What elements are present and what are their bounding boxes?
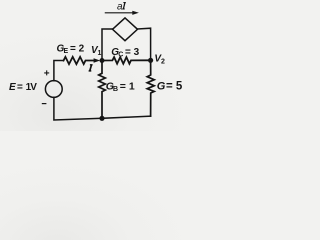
svg-text:V: V (30, 82, 37, 93)
svg-text:= 2: = 2 (70, 44, 85, 55)
svg-text:2: 2 (161, 58, 165, 65)
svg-text:1: 1 (98, 50, 102, 57)
svg-text:= 5: = 5 (166, 80, 183, 92)
svg-text:E: E (64, 48, 69, 55)
svg-text:C: C (118, 52, 123, 59)
svg-text:E: E (9, 82, 16, 93)
svg-text:= 1: = 1 (120, 81, 135, 93)
svg-text:G: G (157, 80, 166, 92)
svg-text:= 3: = 3 (125, 47, 140, 58)
svg-text:B: B (113, 84, 118, 93)
svg-text:a: a (117, 2, 123, 13)
